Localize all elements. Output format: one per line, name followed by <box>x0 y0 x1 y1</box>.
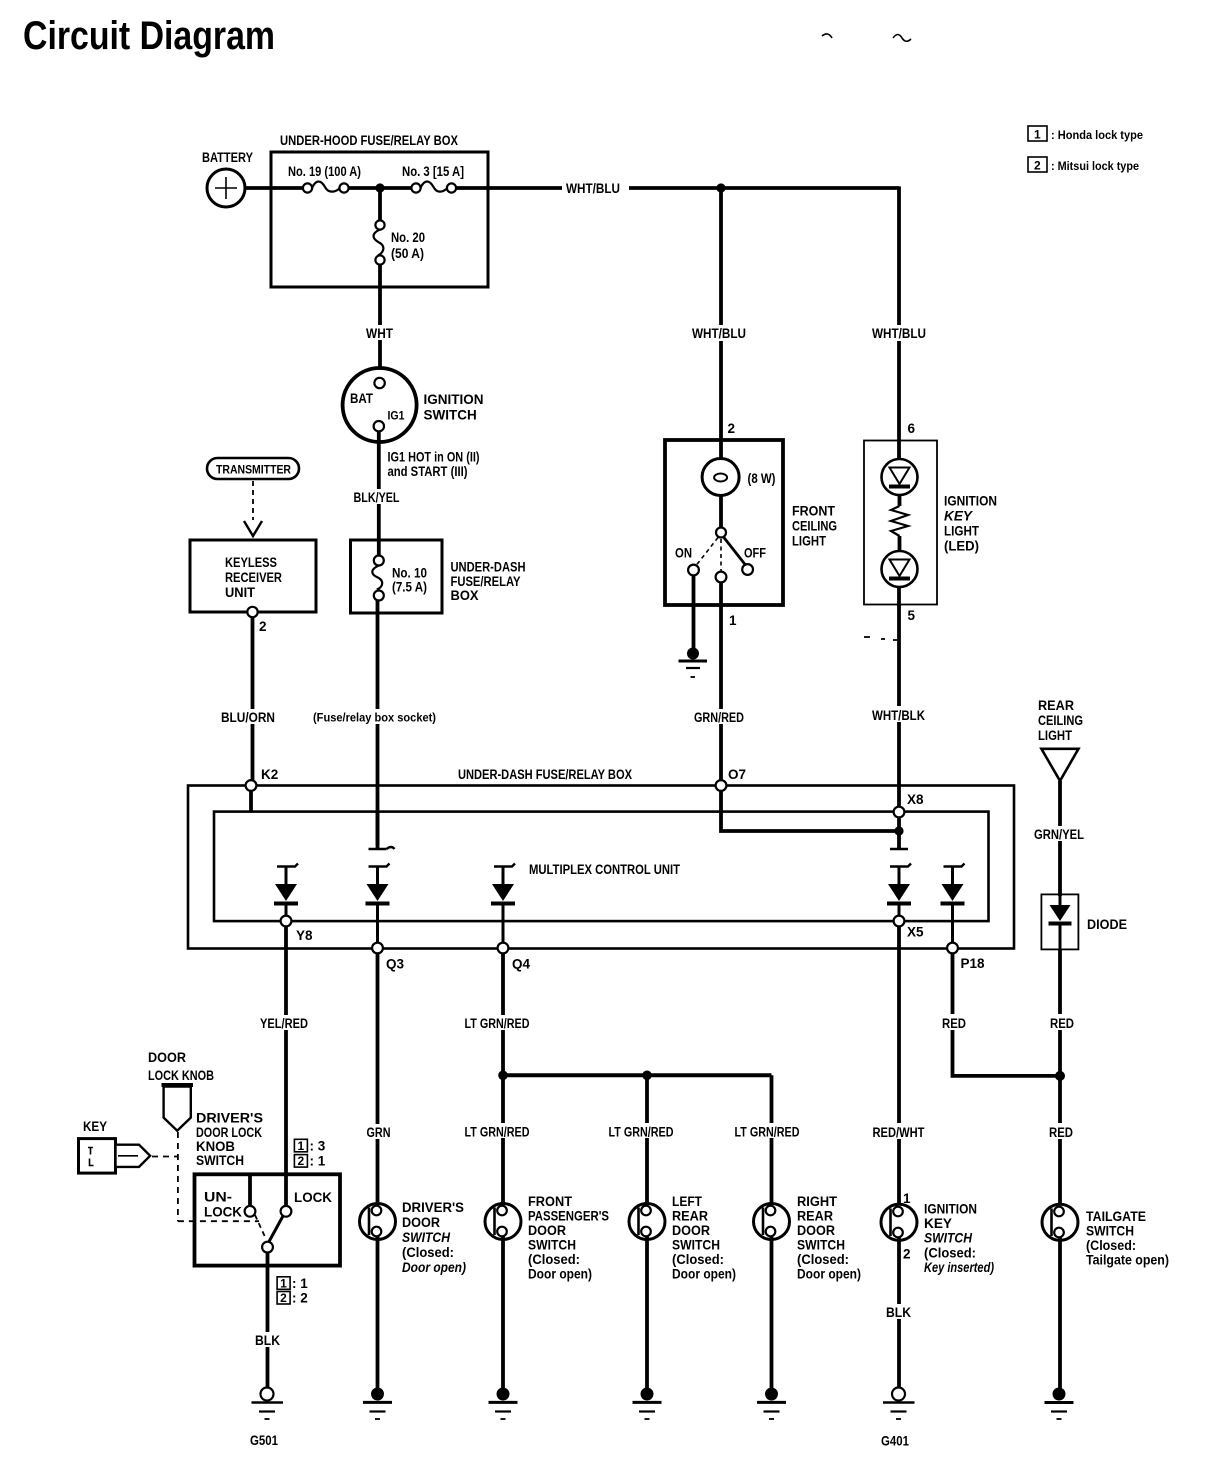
ignition key switch <box>881 1204 917 1240</box>
note IG1 HOT <box>388 450 480 480</box>
legend knob switch out 2:2 <box>277 1291 308 1306</box>
svg-text:WHT/BLU: WHT/BLU <box>872 326 926 341</box>
connector K2 <box>246 767 279 791</box>
svg-text:BLK: BLK <box>886 1305 911 1320</box>
svg-text:DIODE: DIODE <box>1087 917 1127 932</box>
battery <box>202 150 253 207</box>
svg-text:X8: X8 <box>907 792 924 807</box>
svg-text:(Closed:: (Closed: <box>528 1252 580 1267</box>
svg-text:GRN: GRN <box>367 1125 391 1140</box>
svg-text:2: 2 <box>903 1247 911 1262</box>
wire keyless receiver to K2 <box>251 617 255 785</box>
svg-text:6: 6 <box>908 421 916 436</box>
wire label RED tailgate <box>1047 1123 1075 1140</box>
ground driver's door switch <box>363 1388 392 1420</box>
wire label BLK right <box>884 1304 912 1320</box>
ground G401 <box>881 1388 915 1449</box>
led 1 <box>882 441 918 495</box>
svg-text:P18: P18 <box>961 956 986 971</box>
wire bus to left rear switch <box>645 1075 649 1204</box>
svg-text:2: 2 <box>259 619 267 634</box>
svg-text:DOOR: DOOR <box>672 1223 710 1238</box>
svg-text:OFF: OFF <box>744 546 766 561</box>
svg-text:Door open): Door open) <box>528 1267 592 1282</box>
fuse No.3 (15 A) <box>402 164 464 193</box>
connector X8 <box>894 792 924 817</box>
svg-text:O7: O7 <box>728 767 746 782</box>
svg-text:LIGHT: LIGHT <box>1038 728 1073 743</box>
wire label BLU/ORN <box>219 709 277 725</box>
svg-text:No. 19 (100 A): No. 19 (100 A) <box>288 164 361 179</box>
svg-text:LOCK: LOCK <box>204 1205 242 1220</box>
mechanical link dashed to wiper <box>178 1220 259 1222</box>
svg-text:2: 2 <box>1034 159 1041 173</box>
svg-text:UNDER-DASH: UNDER-DASH <box>451 560 526 575</box>
svg-text:CEILING: CEILING <box>792 519 837 534</box>
wire WHT/BLU corner drop to ignition key light <box>897 186 901 441</box>
connector Q3 <box>372 943 404 972</box>
resistor in led unit <box>891 495 908 551</box>
wire label GRN/YEL <box>1032 826 1086 842</box>
svg-text:WHT/BLU: WHT/BLU <box>692 326 746 341</box>
wire label RED/WHT <box>870 1123 928 1140</box>
svg-text:Q4: Q4 <box>512 957 531 972</box>
svg-text:BLK/YEL: BLK/YEL <box>354 490 400 505</box>
wire ON terminal to ground <box>692 576 696 650</box>
svg-text:(Closed:: (Closed: <box>1086 1238 1136 1253</box>
wire Y8 to lock terminal <box>284 927 288 1208</box>
driver's door switch label <box>402 1200 466 1275</box>
ground G501 <box>250 1388 283 1449</box>
fuse No.19 (100 A) <box>288 164 361 193</box>
svg-text:DOOR: DOOR <box>402 1215 440 1230</box>
front ceiling light box <box>665 440 783 605</box>
labels un-lock / lock <box>204 1190 332 1220</box>
wire label WHT/BLK <box>870 706 928 723</box>
wire bulb to switch common <box>719 496 723 529</box>
svg-text:DOOR: DOOR <box>148 1050 186 1065</box>
legend honda lock type <box>1028 126 1143 142</box>
wire rear ceiling light to diode <box>1058 781 1062 896</box>
wiper dashed to unlock <box>255 1215 266 1239</box>
socket tick Q3 lead <box>369 847 395 849</box>
ground front ceiling light <box>679 648 708 678</box>
diode box <box>1041 894 1127 949</box>
svg-text:LOCK: LOCK <box>294 1190 332 1205</box>
svg-text:REAR: REAR <box>672 1209 708 1224</box>
svg-text:(50 A): (50 A) <box>391 246 424 261</box>
svg-text:2: 2 <box>280 1291 287 1305</box>
svg-text:: 3: : 3 <box>310 1139 326 1154</box>
socket tick X8 lead <box>890 848 908 850</box>
svg-text:: 2: : 2 <box>292 1291 308 1306</box>
front passenger's door switch <box>485 1204 521 1240</box>
wire O7 to X8 junction <box>721 791 899 832</box>
right rear door switch label <box>797 1194 861 1282</box>
svg-text:X5: X5 <box>907 925 924 940</box>
svg-text:IG1 HOT in ON (II): IG1 HOT in ON (II) <box>388 450 480 465</box>
svg-text:UNIT: UNIT <box>225 585 256 600</box>
svg-text:RED: RED <box>1050 1016 1074 1031</box>
ground left rear switch <box>633 1388 662 1420</box>
svg-text:Tailgate open): Tailgate open) <box>1086 1253 1169 1268</box>
wire pin1 to O7 <box>719 582 723 785</box>
svg-text:KEY: KEY <box>83 1119 107 1134</box>
wire label BLK/YEL <box>352 489 402 505</box>
wire label RED diode <box>1048 1014 1076 1031</box>
led 2 <box>882 551 918 587</box>
wire label WHT <box>363 325 395 341</box>
svg-text:DOOR LOCK: DOOR LOCK <box>196 1125 262 1140</box>
wire diode to tailgate switch <box>1058 949 1062 1204</box>
wire No.20 fuse down to ignition switch <box>378 265 382 370</box>
svg-text:KEY: KEY <box>924 1216 952 1231</box>
svg-text:DRIVER'S: DRIVER'S <box>196 1111 263 1126</box>
wire battery to fuse No.19 <box>245 186 303 190</box>
svg-text:2: 2 <box>298 1154 305 1168</box>
bus wire door switches <box>503 1073 772 1077</box>
wire label LT GRN/RED q4 <box>462 1015 532 1031</box>
svg-text:SWITCH: SWITCH <box>672 1238 720 1253</box>
wire label RED p18 <box>940 1014 968 1031</box>
left rear door switch <box>629 1204 665 1240</box>
tailgate switch <box>1042 1204 1078 1240</box>
fuse No.10 (7.5 A) <box>372 556 384 601</box>
svg-text:BOX: BOX <box>451 588 479 603</box>
lock terminal <box>281 1206 292 1217</box>
wire ignition switch to No.10 fuse <box>377 432 381 557</box>
wire K2 into box <box>249 791 253 812</box>
svg-text:SWITCH: SWITCH <box>402 1230 450 1245</box>
wire No.10 fuse down to under-dash box <box>376 601 380 846</box>
svg-text:G501: G501 <box>250 1433 278 1448</box>
scan marks middle <box>864 637 897 640</box>
wire fuse No.19 to fuse No.3 with junction <box>349 186 412 190</box>
wire Q3 to driver's door switch <box>376 954 380 1205</box>
legend knob switch pin 2:1 <box>294 1154 325 1169</box>
svg-text:(Closed:: (Closed: <box>402 1245 454 1260</box>
svg-text:: 1: : 1 <box>310 1154 326 1169</box>
under-dash fuse/relay box outer <box>188 767 1014 949</box>
svg-text:SWITCH: SWITCH <box>1086 1224 1134 1239</box>
svg-text:No. 10: No. 10 <box>392 566 427 581</box>
diode D4 (X5) <box>887 864 911 917</box>
left rear door switch label <box>672 1194 736 1282</box>
wire WHT/BLU drop to front ceiling light <box>719 188 723 440</box>
diode D3 (Q4) <box>491 864 515 944</box>
wiper pivot <box>262 1242 273 1253</box>
wire label YEL/RED <box>258 1015 310 1031</box>
multiplex control unit box <box>214 812 989 922</box>
dashed signal arrow transmitter to keyless receiver <box>244 481 262 536</box>
wire right rear switch to ground <box>770 1237 774 1390</box>
svg-text:RED: RED <box>942 1016 966 1031</box>
driver's door switch <box>360 1204 396 1240</box>
wire label BLK <box>253 1332 281 1348</box>
svg-text:G401: G401 <box>881 1434 909 1449</box>
svg-text:FUSE/RELAY: FUSE/RELAY <box>451 574 521 589</box>
svg-text:LT GRN/RED: LT GRN/RED <box>465 1125 530 1140</box>
rear ceiling light label <box>1038 698 1083 743</box>
svg-text:Circuit Diagram: Circuit Diagram <box>23 14 275 58</box>
ignition key switch label <box>924 1202 994 1276</box>
svg-text:1: 1 <box>280 1277 287 1291</box>
svg-text:LT GRN/RED: LT GRN/RED <box>735 1125 800 1140</box>
wire WHT/BLU to right corner <box>629 186 899 190</box>
wire label LT GRN/RED rr <box>732 1123 802 1140</box>
unlock stub wire <box>248 1176 252 1206</box>
svg-text:and START (III): and START (III) <box>388 464 468 479</box>
svg-text:(Fuse/relay box socket): (Fuse/relay box socket) <box>313 711 436 725</box>
svg-text:Key inserted): Key inserted) <box>924 1260 994 1275</box>
svg-text:IGNITION: IGNITION <box>944 494 997 509</box>
svg-text:No. 20: No. 20 <box>391 230 425 245</box>
wire front passenger switch to ground <box>501 1237 505 1390</box>
svg-text:ON: ON <box>675 546 692 561</box>
svg-text:SWITCH: SWITCH <box>424 408 477 423</box>
svg-text:UNDER-HOOD FUSE/RELAY BOX: UNDER-HOOD FUSE/RELAY BOX <box>280 133 458 148</box>
svg-text:FRONT: FRONT <box>792 504 836 519</box>
svg-text:YEL/RED: YEL/RED <box>260 1016 308 1031</box>
wire bus to front passenger switch <box>501 1075 505 1204</box>
svg-text:2: 2 <box>728 421 736 436</box>
right rear door switch <box>754 1204 790 1240</box>
svg-text:IGNITION: IGNITION <box>424 392 484 407</box>
connector Y8 <box>281 916 313 943</box>
svg-text:LEFT: LEFT <box>672 1194 703 1209</box>
svg-text:GRN/YEL: GRN/YEL <box>1034 827 1084 842</box>
wire label GRN/RED <box>692 709 746 725</box>
svg-text:(Closed:: (Closed: <box>924 1245 976 1260</box>
wire label WHT/BLU right drop <box>870 325 928 341</box>
svg-text:SWITCH: SWITCH <box>196 1153 244 1168</box>
wire left rear switch to ground <box>645 1237 649 1390</box>
keyless receiver unit <box>190 540 316 612</box>
svg-text:IG1: IG1 <box>388 409 405 423</box>
mechanical link dashed knob down <box>177 1132 179 1221</box>
svg-text:RED: RED <box>1049 1125 1073 1140</box>
tailgate switch label <box>1086 1209 1169 1268</box>
junction bus at left rear <box>642 1071 652 1081</box>
svg-text:LIGHT: LIGHT <box>944 524 980 539</box>
svg-text:RED/WHT: RED/WHT <box>873 1125 926 1140</box>
svg-text:1: 1 <box>729 613 737 628</box>
svg-text:(Closed:: (Closed: <box>797 1252 849 1267</box>
transmitter <box>207 458 299 479</box>
svg-text:K2: K2 <box>261 767 278 782</box>
connector P18 <box>947 943 985 971</box>
junction bus at Q4 <box>498 1071 508 1081</box>
svg-text:REAR: REAR <box>797 1209 833 1224</box>
wire label (Fuse/relay box socket) <box>310 709 439 725</box>
diode D1 (Y8) <box>274 864 298 917</box>
svg-text:UNDER-DASH FUSE/RELAY BOX: UNDER-DASH FUSE/RELAY BOX <box>458 767 632 782</box>
mechanical link dashed key to switch <box>152 1156 178 1158</box>
svg-text:IGNITION: IGNITION <box>924 1202 977 1217</box>
diode D2 (Q3) <box>366 864 390 944</box>
ignition key light box <box>864 441 937 605</box>
wire No.10 into multiplex <box>376 812 380 849</box>
svg-text:DOOR: DOOR <box>528 1223 566 1238</box>
svg-text:(8 W): (8 W) <box>748 471 776 486</box>
svg-text:WHT/BLU: WHT/BLU <box>566 181 620 196</box>
junction X8/O7 <box>894 826 903 835</box>
svg-text:CEILING: CEILING <box>1038 713 1083 728</box>
ground front passenger switch <box>489 1388 518 1420</box>
svg-text:Q3: Q3 <box>386 957 405 972</box>
ignition switch <box>343 368 484 442</box>
diode D6 <box>1049 896 1072 949</box>
svg-text:(7.5 A): (7.5 A) <box>392 580 427 595</box>
ceiling light switch <box>675 528 766 583</box>
svg-text:LIGHT: LIGHT <box>792 534 827 549</box>
svg-text:BLU/ORN: BLU/ORN <box>221 710 275 725</box>
ground right rear switch <box>757 1388 786 1420</box>
svg-text:RIGHT: RIGHT <box>797 1194 838 1209</box>
svg-text:TAILGATE: TAILGATE <box>1086 1209 1146 1224</box>
svg-text:TRANSMITTER: TRANSMITTER <box>216 463 291 477</box>
wire label GRN <box>364 1124 392 1140</box>
svg-text:LT GRN/RED: LT GRN/RED <box>609 1125 674 1140</box>
bulb (8 W) <box>702 440 775 496</box>
wire X8 down through junction <box>897 817 901 849</box>
svg-text:RECEIVER: RECEIVER <box>225 570 282 585</box>
svg-text:DRIVER'S: DRIVER'S <box>402 1200 464 1215</box>
svg-text:WHT/BLK: WHT/BLK <box>872 708 925 723</box>
svg-text:BLK: BLK <box>255 1333 280 1348</box>
svg-text:UN-: UN- <box>204 1190 232 1205</box>
svg-text:1: 1 <box>1034 128 1041 142</box>
svg-text:Door open): Door open) <box>402 1260 466 1275</box>
driver's door lock knob switch label <box>196 1111 263 1169</box>
key symbol <box>79 1139 151 1174</box>
svg-text:MULTIPLEX CONTROL UNIT: MULTIPLEX CONTROL UNIT <box>529 862 681 877</box>
connector O7 <box>716 767 746 791</box>
svg-text:Door open): Door open) <box>672 1267 736 1282</box>
svg-text:KEYLESS: KEYLESS <box>225 555 277 570</box>
svg-text:No. 3 [15 A]: No. 3 [15 A] <box>402 164 464 179</box>
connector Q4 <box>498 943 531 972</box>
svg-text:(Closed:: (Closed: <box>672 1252 724 1267</box>
wire Q4 to bus <box>501 954 505 1076</box>
svg-text:SWITCH: SWITCH <box>924 1231 972 1246</box>
wiper arm <box>269 1216 284 1243</box>
door lock knob label <box>148 1050 214 1083</box>
rear ceiling light symbol <box>1041 749 1078 781</box>
wire bus to right rear switch <box>770 1075 774 1204</box>
svg-text:5: 5 <box>908 608 916 623</box>
pin 2 keyless <box>247 607 257 617</box>
unlock terminal <box>245 1206 256 1217</box>
legend knob switch pin 1:3 <box>294 1139 325 1154</box>
svg-text:LT GRN/RED: LT GRN/RED <box>465 1016 530 1031</box>
svg-text:PASSENGER'S: PASSENGER'S <box>528 1209 609 1224</box>
scan marks top right <box>822 34 911 41</box>
svg-text:SWITCH: SWITCH <box>797 1238 845 1253</box>
ignition key light label <box>944 494 997 554</box>
svg-text:(LED): (LED) <box>944 539 979 554</box>
front passenger's door switch label <box>528 1194 609 1282</box>
connector X5 <box>894 916 924 940</box>
under-dash fuse/relay box (No.10) <box>351 540 526 613</box>
wire driver's door switch to ground <box>376 1237 380 1390</box>
junction at No.20 tap <box>375 183 384 192</box>
svg-text:Door open): Door open) <box>797 1267 861 1282</box>
under-hood fuse/relay box <box>271 133 488 287</box>
legend knob switch out 1:1 <box>277 1276 308 1291</box>
svg-text:GRN/RED: GRN/RED <box>694 710 744 725</box>
wire fuse No.3 to WHT/BLU label <box>456 186 562 190</box>
wire label WHT/BLU left drop <box>690 325 748 341</box>
svg-text:SWITCH: SWITCH <box>528 1238 576 1253</box>
svg-text:WHT: WHT <box>366 326 394 341</box>
wire led unit to X8 <box>897 587 901 812</box>
junction node front ceiling branch <box>716 183 725 192</box>
diode D5 (P18) <box>941 864 965 944</box>
svg-text:: Mitsui lock type: : Mitsui lock type <box>1051 159 1139 173</box>
driver's door lock knob switch box <box>195 1174 341 1265</box>
svg-text:KEY: KEY <box>944 509 974 524</box>
wire label LT GRN/RED lr <box>606 1123 676 1140</box>
svg-text:BATTERY: BATTERY <box>202 150 253 165</box>
wire P18 branch to tailgate column <box>953 954 1061 1076</box>
svg-text:: 1: : 1 <box>292 1276 308 1291</box>
wire label LT GRN/RED fp <box>462 1123 532 1140</box>
svg-text:BAT: BAT <box>350 391 374 406</box>
svg-text:KNOB: KNOB <box>196 1139 235 1154</box>
svg-text:: Honda lock type: : Honda lock type <box>1051 128 1143 142</box>
svg-text:REAR: REAR <box>1038 698 1074 713</box>
wire X5 to ignition key switch <box>897 927 901 1205</box>
wire ignition key switch to ground <box>897 1238 901 1389</box>
svg-text:FRONT: FRONT <box>528 1194 573 1209</box>
wire pivot to ground <box>266 1253 270 1389</box>
junction tailgate branch <box>1055 1071 1065 1081</box>
svg-text:LOCK KNOB: LOCK KNOB <box>148 1068 214 1083</box>
door lock knob symbol <box>162 1085 194 1131</box>
wire tailgate switch to ground <box>1058 1238 1062 1390</box>
front ceiling light label <box>792 504 837 549</box>
svg-text:Y8: Y8 <box>296 928 313 943</box>
svg-text:DOOR: DOOR <box>797 1223 835 1238</box>
fuse No.20 (50 A) <box>374 188 426 265</box>
svg-text:1: 1 <box>298 1139 305 1153</box>
legend mitsui lock type <box>1028 157 1139 173</box>
ground tailgate switch <box>1045 1388 1074 1420</box>
